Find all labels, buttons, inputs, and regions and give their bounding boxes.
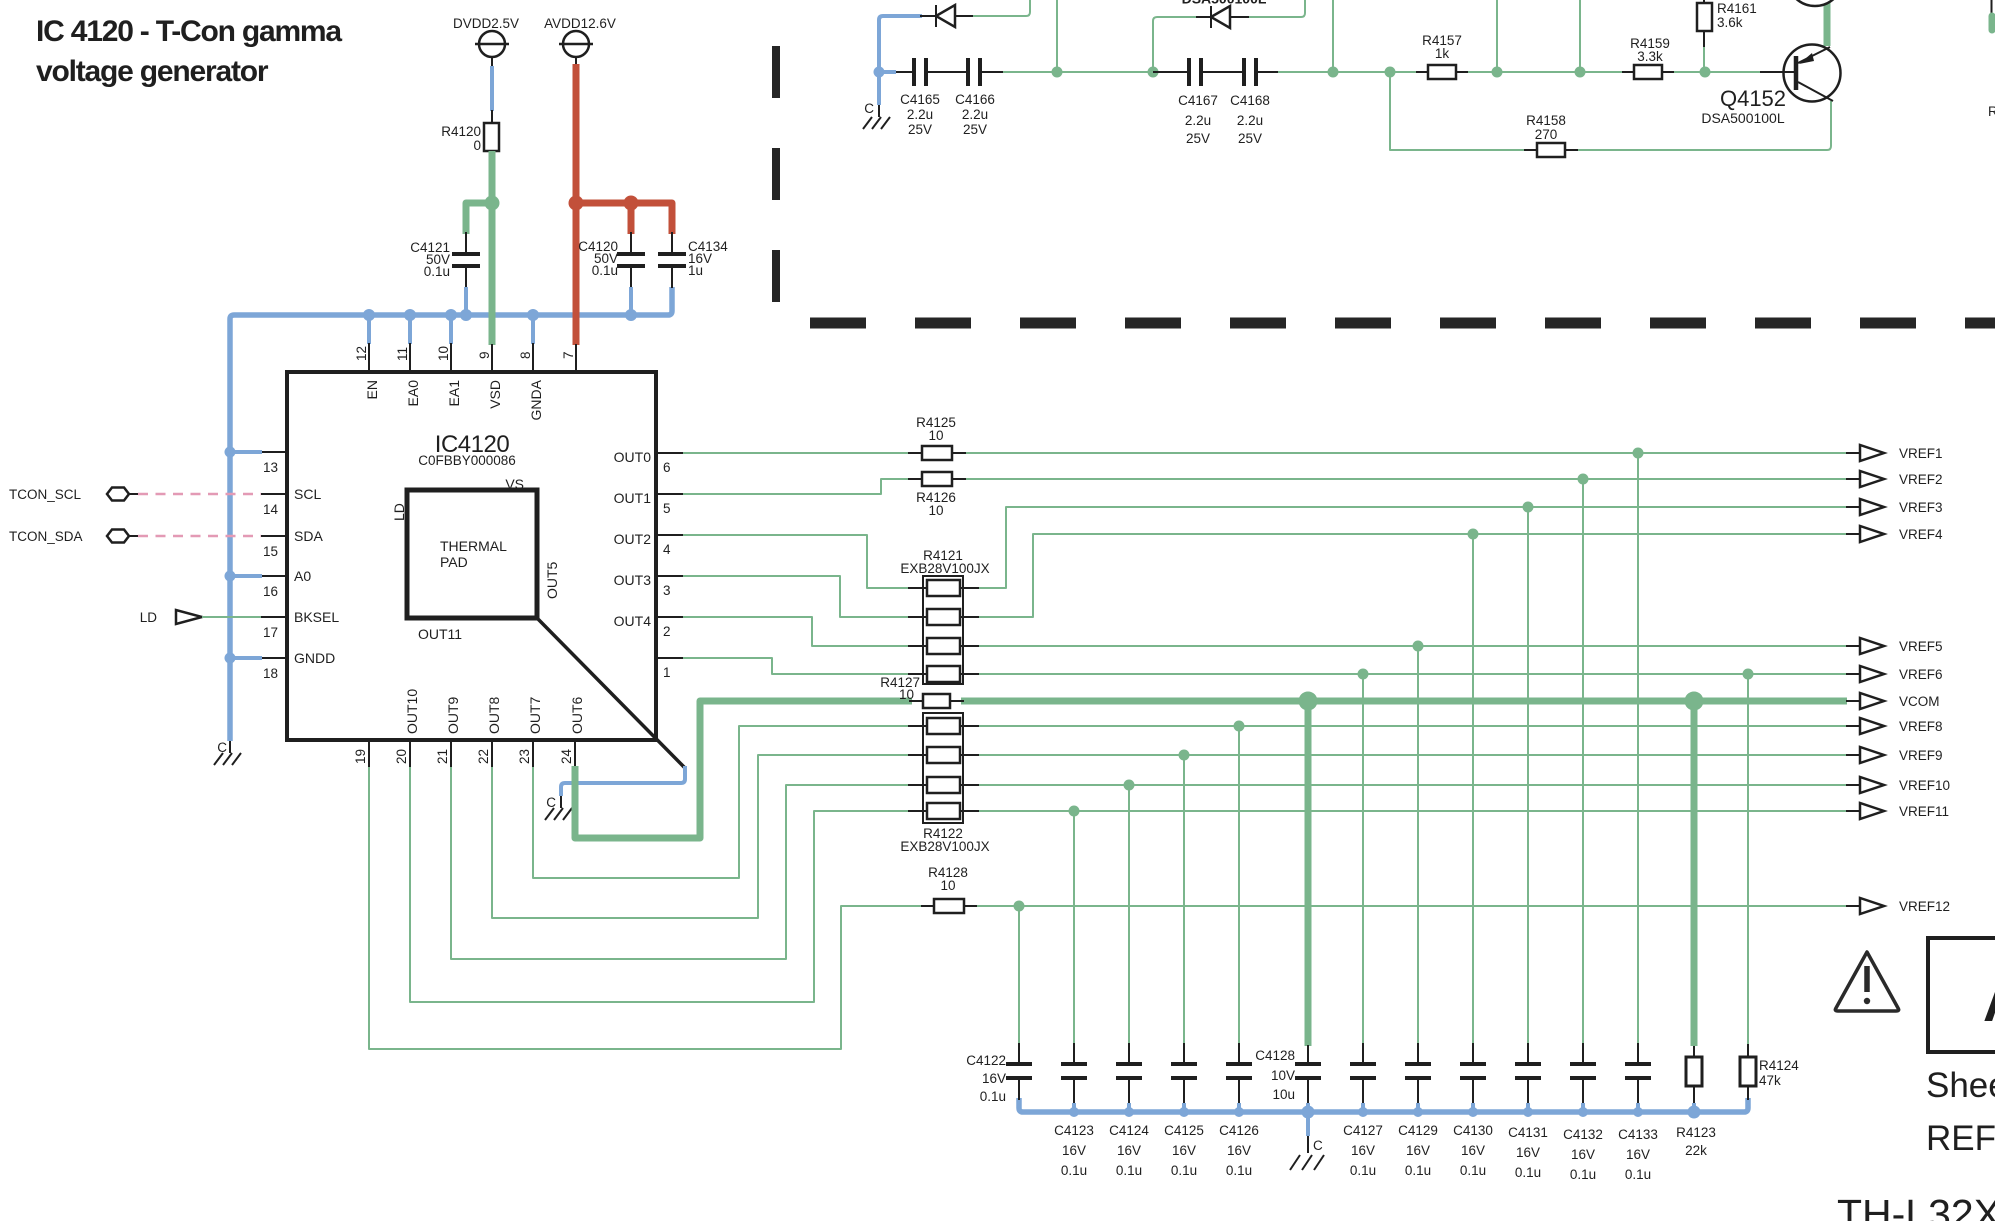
svg-text:OUT6: OUT6 (569, 696, 585, 734)
svg-text:VREF12: VREF12 (1899, 899, 1950, 914)
svg-text:0.1u: 0.1u (1460, 1163, 1486, 1178)
node VREF1 out (1846, 445, 1943, 461)
svg-text:23: 23 (517, 749, 532, 764)
svg-text:OUT9: OUT9 (445, 696, 461, 734)
wire pin20 to R4122d (410, 767, 912, 1002)
svg-text:22k: 22k (1685, 1143, 1707, 1158)
svg-text:16V: 16V (1117, 1143, 1141, 1158)
node VREF6-R4124 (1743, 669, 1754, 680)
wire green vertical 1580 (1579, 0, 1581, 72)
capacitor C4130 16V 0.1u (1453, 1043, 1493, 1178)
node VREF1-C4133 (1633, 448, 1644, 459)
node green 1705 (1700, 67, 1711, 78)
svg-text:0.1u: 0.1u (592, 263, 618, 278)
pin 9 (477, 344, 492, 372)
wire pin21 to R4122c (451, 767, 912, 959)
svg-text:15: 15 (263, 544, 278, 559)
resistor R4161 3.6k (1697, 0, 1757, 72)
svg-text:10V: 10V (1271, 1068, 1295, 1083)
svg-text:0: 0 (473, 138, 481, 153)
svg-text:C4126: C4126 (1219, 1123, 1259, 1138)
svg-text:VREF5: VREF5 (1899, 639, 1943, 654)
svg-text:C4131: C4131 (1508, 1125, 1548, 1140)
svg-text:2.2u: 2.2u (907, 107, 933, 122)
wire dashed SCL (138, 493, 261, 496)
svg-text:C: C (864, 101, 874, 116)
svg-text:19: 19 (353, 749, 368, 764)
svg-text:DSA500100L: DSA500100L (1182, 0, 1267, 7)
svg-text:SCL: SCL (294, 486, 321, 502)
svg-text:VREF11: VREF11 (1899, 804, 1949, 819)
title text (36, 15, 342, 88)
node bus pin13 (225, 447, 236, 458)
svg-text:C4123: C4123 (1054, 1123, 1094, 1138)
wire drop C4124 (1128, 785, 1130, 1044)
wire DVDD blue segment (491, 57, 493, 123)
node VREF12 out (1846, 898, 1950, 914)
wire drop C4130 (1472, 534, 1474, 1044)
svg-text:R4123: R4123 (1676, 1125, 1716, 1140)
wire pin6 to R4125 (683, 452, 912, 454)
svg-text:OUT4: OUT4 (614, 613, 652, 629)
node bus C4121 (460, 309, 472, 321)
svg-text:R4158: R4158 (1526, 113, 1566, 128)
pin 22 (476, 740, 492, 767)
capacitor C4122 16V 0.1u (966, 1043, 1032, 1104)
node AVDD junction 1 (569, 196, 584, 211)
svg-text:0.1u: 0.1u (980, 1089, 1006, 1104)
pin 15 (261, 536, 287, 559)
svg-text:2.2u: 2.2u (1237, 113, 1263, 128)
svg-text:AVDD12.6V: AVDD12.6V (544, 16, 616, 31)
svg-text:8: 8 (518, 351, 533, 359)
svg-text:EXB28V100JX: EXB28V100JX (900, 561, 989, 576)
node VREF4-C4130 (1468, 529, 1479, 540)
svg-text:10: 10 (928, 503, 943, 518)
svg-text:47k: 47k (1759, 1073, 1781, 1088)
node VREF3-C4131 (1523, 502, 1534, 513)
svg-text:270: 270 (1535, 127, 1558, 142)
svg-text:16V: 16V (1172, 1143, 1196, 1158)
svg-text:5: 5 (663, 501, 671, 516)
svg-text:C4127: C4127 (1343, 1123, 1383, 1138)
wire blue stub pin18 (230, 656, 262, 660)
wire drop C4125 (1183, 755, 1185, 1044)
pin 11 (395, 343, 410, 372)
capacitor C4128 10V 10u (1255, 1045, 1321, 1112)
node VREF9 out (1846, 747, 1943, 763)
node VREF2-C4132 (1578, 474, 1589, 485)
pin 19 (353, 740, 369, 767)
svg-text:C4166: C4166 (955, 92, 995, 107)
svg-text:C4168: C4168 (1230, 93, 1270, 108)
node TCON_SDA connector (9, 529, 138, 544)
transistor circle above (cut) (1787, 0, 1843, 6)
svg-text:LD: LD (140, 610, 158, 625)
wire VREF10 (975, 784, 1847, 786)
resistor R4126 10 (908, 472, 966, 518)
wire blue top bus (230, 287, 672, 741)
node VREF5-C4129 (1413, 641, 1424, 652)
wire pin22 to R4122b (492, 755, 912, 918)
svg-text:1u: 1u (688, 263, 703, 278)
svg-text:DSA500100L: DSA500100L (1701, 110, 1785, 126)
svg-text:24: 24 (559, 748, 574, 764)
node VCOM-C4128 (1299, 692, 1318, 711)
pin 21 (435, 740, 451, 767)
svg-text:OUT7: OUT7 (527, 696, 543, 734)
svg-text:0.1u: 0.1u (1116, 1163, 1142, 1178)
svg-text:13: 13 (263, 460, 278, 475)
svg-text:A0: A0 (294, 568, 311, 584)
wire black right edge (1991, 0, 1993, 16)
wire VREF3 (975, 507, 1847, 588)
capacitor C4120 50V 0.1u (578, 232, 645, 314)
wire drop C4127 (1362, 674, 1364, 1044)
svg-text:16V: 16V (1227, 1143, 1251, 1158)
IC4120 label (418, 431, 516, 468)
svg-text:2.2u: 2.2u (1185, 113, 1211, 128)
pin 18 (261, 658, 287, 681)
capacitor C4131 16V 0.1u (1508, 1043, 1548, 1180)
node bus pin16 (225, 571, 236, 582)
node VREF11 out (1846, 803, 1949, 819)
diode D1 (920, 5, 973, 27)
resistor R4125 10 (908, 415, 966, 460)
caution box with A (1928, 938, 1995, 1052)
svg-text:GNDD: GNDD (294, 650, 335, 666)
wire green after D2 (1249, 0, 1305, 17)
wire VCOM thick pin24 to R4127 (575, 701, 912, 838)
wire pin19 to R4128 (369, 767, 923, 1049)
svg-text:10: 10 (928, 428, 943, 443)
node bus pin12 (363, 309, 375, 321)
svg-text:C4125: C4125 (1164, 1123, 1204, 1138)
wire blue top right corner (879, 16, 922, 105)
node green 1153 (1148, 67, 1159, 78)
warning triangle (1835, 952, 1898, 1011)
svg-text:C4132: C4132 (1563, 1127, 1603, 1142)
svg-text:C4165: C4165 (900, 92, 940, 107)
wire green C4166 to node (1003, 71, 1153, 73)
svg-text:14: 14 (263, 502, 279, 517)
wire dashed SDA (138, 535, 261, 538)
wire AVDD red to pin 7 (576, 57, 672, 345)
wire diagonal from thermal pad to corner (537, 618, 685, 768)
svg-text:10: 10 (899, 687, 914, 702)
pin 17 (261, 617, 287, 640)
pin 1 (656, 658, 683, 680)
op-amp U1 IC4120 body (287, 372, 656, 740)
ground C below IC (545, 795, 572, 820)
resistor R4159 3.3k (1622, 36, 1674, 79)
resistor R4128 10 (921, 865, 977, 913)
svg-text:25V: 25V (908, 122, 932, 137)
svg-text:VCOM: VCOM (1899, 694, 1940, 709)
wire pin23 to R4122a (533, 726, 912, 878)
svg-text:SDA: SDA (294, 528, 323, 544)
svg-text:OUT8: OUT8 (486, 696, 502, 734)
svg-text:0.1u: 0.1u (424, 264, 450, 279)
svg-text:BKSEL: BKSEL (294, 609, 339, 625)
svg-text:C4130: C4130 (1453, 1123, 1493, 1138)
svg-text:22: 22 (476, 749, 491, 764)
svg-text:OUT11: OUT11 (418, 626, 462, 642)
pin 20 (394, 740, 410, 767)
svg-text:VREF8: VREF8 (1899, 719, 1943, 734)
power symbol DVDD2.5V (453, 16, 519, 57)
svg-text:18: 18 (263, 666, 278, 681)
node VREF8 out (1846, 718, 1943, 734)
resistor R4158 270 (1524, 113, 1578, 157)
svg-text:16V: 16V (1406, 1143, 1430, 1158)
svg-text:0.1u: 0.1u (1625, 1167, 1651, 1182)
resistor R4123 22k (1676, 1046, 1716, 1158)
svg-text:1k: 1k (1435, 46, 1450, 61)
svg-text:VREF9: VREF9 (1899, 748, 1943, 763)
wire drop C4122 (1018, 906, 1020, 1044)
resistor network R4122 EXB28V100JX (900, 713, 989, 854)
node TCON_SCL connector (9, 487, 138, 502)
wire dashed boundary horizontal (810, 318, 1995, 329)
wire green thick emitter (1824, 0, 1831, 46)
capacitor C4133 16V 0.1u (1618, 1043, 1658, 1182)
svg-text:EXB28V100JX: EXB28V100JX (900, 839, 989, 854)
wire green vertical 1333 (1332, 0, 1334, 72)
wire green up to D2 (1153, 17, 1196, 72)
ground C left bus (214, 740, 241, 765)
wire drop C4131 (1527, 507, 1529, 1044)
capacitor C4126 16V 0.1u (1219, 1043, 1259, 1178)
svg-text:OUT5: OUT5 (544, 561, 560, 599)
diode D2 (1196, 6, 1249, 28)
capacitor C4134 16V 1u (658, 232, 728, 288)
wire VREF1 (962, 452, 1847, 454)
node green 1057 (1052, 67, 1063, 78)
wire green loop via R4158 (1390, 72, 1831, 150)
wire drop C4133 (1637, 453, 1639, 1044)
node VREF3 out (1846, 499, 1943, 515)
node blue junction (874, 67, 885, 78)
power symbol AVDD12.6V (544, 16, 616, 57)
svg-text:THERMAL: THERMAL (440, 538, 507, 554)
svg-text:16V: 16V (1461, 1143, 1485, 1158)
pin 10 (436, 343, 451, 372)
node green 1497 (1492, 67, 1503, 78)
node bus pin18 (225, 653, 236, 664)
svg-text:16V: 16V (1351, 1143, 1375, 1158)
svg-text:EN: EN (364, 380, 380, 399)
svg-text:OUT1: OUT1 (614, 490, 652, 506)
capacitor C4121 50V 0.1u (410, 232, 480, 314)
wire drop R4123 thick (1691, 701, 1698, 1046)
svg-text:11: 11 (395, 347, 410, 361)
capacitor C4125 16V 0.1u (1164, 1043, 1204, 1178)
svg-text:0.1u: 0.1u (1061, 1163, 1087, 1178)
svg-text:C4133: C4133 (1618, 1127, 1658, 1142)
svg-text:0.1u: 0.1u (1515, 1165, 1541, 1180)
wire drop C4129 (1417, 646, 1419, 1044)
wire VREF4 (975, 534, 1847, 617)
svg-text:C4129: C4129 (1398, 1123, 1438, 1138)
capacitor C4167 2.2u 25V (1153, 58, 1218, 146)
node bus pin10 (445, 309, 457, 321)
capacitor C4129 16V 0.1u (1398, 1043, 1438, 1178)
svg-text:VREF3: VREF3 (1899, 500, 1943, 515)
wire blue stub to C4165 (879, 70, 896, 74)
wire drop C4126 (1238, 726, 1240, 1044)
pin 5 (656, 494, 683, 516)
svg-text:0.1u: 0.1u (1171, 1163, 1197, 1178)
wire dashed boundary vertical (772, 46, 780, 304)
svg-text:25V: 25V (1186, 131, 1210, 146)
resistor R4157 1k (1416, 33, 1468, 79)
svg-text:16: 16 (263, 584, 278, 599)
svg-text:OUT3: OUT3 (614, 572, 652, 588)
node VREF4 out (1846, 526, 1943, 542)
svg-text:7: 7 (561, 351, 576, 359)
wire pin1 to R4121d (683, 658, 912, 674)
svg-text:0.1u: 0.1u (1405, 1163, 1431, 1178)
svg-text:16V: 16V (1626, 1147, 1650, 1162)
svg-text:voltage generator: voltage generator (36, 55, 269, 88)
wire green after D1 (973, 0, 1030, 16)
capacitor C4127 16V 0.1u (1343, 1043, 1383, 1178)
svg-text:2: 2 (663, 624, 671, 639)
transistor Q4152 DSA500100L (1701, 45, 1840, 127)
svg-text:LD: LD (391, 503, 407, 521)
node bus C4120 (625, 309, 637, 321)
svg-text:REF: REF (1926, 1119, 1995, 1158)
pin 3 (656, 576, 683, 598)
node VREF8-C4126 (1234, 721, 1245, 732)
svg-text:21: 21 (435, 749, 450, 764)
svg-text:OUT10: OUT10 (404, 689, 420, 734)
svg-text:16V: 16V (1516, 1145, 1540, 1160)
pin 6 (656, 453, 683, 475)
node VREF9-C4125 (1179, 750, 1190, 761)
wire VSD green from R4120 to pin 9 (466, 151, 492, 345)
svg-text:3.3k: 3.3k (1637, 49, 1663, 64)
wire blue stubs to pins 12 11 10 8 (369, 315, 533, 344)
svg-text:VREF10: VREF10 (1899, 778, 1950, 793)
svg-text:16V: 16V (1571, 1147, 1595, 1162)
pin 14 (261, 494, 287, 517)
svg-text:C4122: C4122 (966, 1053, 1006, 1068)
svg-text:R: R (1988, 104, 1995, 119)
svg-text:EA1: EA1 (446, 380, 462, 407)
wire pin3 to R4121b (683, 576, 912, 617)
node VREF10-C4124 (1124, 780, 1135, 791)
node VCOM-R4123 (1685, 692, 1704, 711)
svg-text:0.1u: 0.1u (1570, 1167, 1596, 1182)
svg-text:VREF2: VREF2 (1899, 472, 1943, 487)
svg-text:R4161: R4161 (1717, 1, 1757, 16)
node VSD junction (485, 196, 500, 211)
svg-text:2.2u: 2.2u (962, 107, 988, 122)
svg-text:C4167: C4167 (1178, 93, 1218, 108)
svg-text:17: 17 (263, 625, 278, 640)
node VREF12-C4122 (1014, 901, 1025, 912)
svg-text:GNDA: GNDA (528, 379, 544, 420)
capacitor C4166 2.2u 25V (926, 58, 1003, 137)
resistor R4120 0 (441, 123, 499, 153)
capacitor C4165 2.2u 25V (896, 58, 940, 137)
node bus pin11 (404, 309, 416, 321)
wire VREF12 (975, 905, 1847, 907)
wire VREF8 (975, 725, 1847, 727)
pin 16 (261, 576, 287, 599)
node green 1390 (1385, 67, 1396, 78)
node green 1333 (1328, 67, 1339, 78)
svg-text:3: 3 (663, 583, 671, 598)
pin 24 (559, 740, 575, 767)
node VCOM out (1846, 693, 1940, 709)
node bottom bus dots (1069, 1106, 1701, 1119)
wire pin2 to R4121c (683, 617, 912, 646)
svg-text:16V: 16V (982, 1071, 1006, 1086)
svg-text:25V: 25V (963, 122, 987, 137)
svg-text:0.1u: 0.1u (1350, 1163, 1376, 1178)
wire blue stub pin16 (230, 574, 262, 578)
svg-text:TCON_SCL: TCON_SCL (9, 487, 82, 502)
wire pin4 to R4121a (683, 535, 912, 588)
wire drop R4124 (1747, 674, 1749, 1044)
node VREF2 out (1846, 471, 1943, 487)
capacitor C4132 16V 0.1u (1563, 1043, 1603, 1182)
svg-text:R4120: R4120 (441, 124, 481, 139)
pin 7 (561, 344, 576, 372)
svg-text:VREF4: VREF4 (1899, 527, 1943, 542)
wire VREF2 (962, 478, 1847, 480)
ground C top right (863, 101, 890, 129)
wire green thick right edge stub (1989, 16, 1995, 30)
svg-text:OUT0: OUT0 (614, 449, 652, 465)
svg-text:3.6k: 3.6k (1717, 15, 1743, 30)
pin 8 (518, 343, 533, 372)
svg-text:Q4152: Q4152 (1720, 86, 1786, 111)
capacitor C4123 16V 0.1u (1054, 1043, 1094, 1178)
pin 13 (261, 452, 287, 475)
svg-text:25V: 25V (1238, 131, 1262, 146)
svg-text:9: 9 (477, 351, 492, 359)
svg-text:16V: 16V (1062, 1143, 1086, 1158)
svg-text:DVDD2.5V: DVDD2.5V (453, 16, 519, 31)
wire drop C4123 (1073, 811, 1075, 1044)
wire VREF5 (975, 645, 1847, 647)
svg-text:10: 10 (436, 346, 451, 361)
node VREF6 out (1846, 666, 1943, 682)
resistor R4127 10 (880, 675, 964, 708)
wire green vertical 1497 (1496, 0, 1498, 72)
wire blue stub pin13 (230, 450, 262, 454)
wire green C4168 to R4157 (1278, 71, 1416, 73)
wire VREF11 (975, 810, 1847, 812)
svg-text:OUT2: OUT2 (614, 531, 652, 547)
pin 23 (517, 740, 533, 767)
thermal pad (407, 490, 537, 618)
wire green R4159 to Q4152 (1674, 71, 1760, 73)
svg-text:C4128: C4128 (1255, 1048, 1295, 1063)
capacitor C4168 2.2u 25V (1201, 58, 1278, 146)
node VREF10 out (1846, 777, 1950, 793)
wire drop C4128 thick (1305, 701, 1312, 1046)
wire green vertical into node (1056, 0, 1058, 72)
svg-text:PAD: PAD (440, 554, 468, 570)
node VREF5 out (1846, 638, 1943, 654)
svg-text:VREF1: VREF1 (1899, 446, 1943, 461)
node bus pin8 (527, 309, 539, 321)
